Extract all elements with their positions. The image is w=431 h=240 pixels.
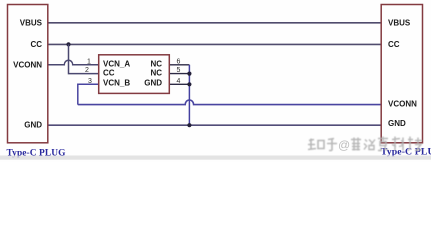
svg-text:NC: NC [150, 59, 162, 68]
svg-text:2: 2 [85, 67, 89, 74]
wire GND net (left plug to right plug) [48, 124, 381, 126]
svg-text:VCN_A: VCN_A [103, 59, 130, 68]
node junction pin4/bus [187, 82, 191, 86]
watermark bottom band [0, 156, 431, 160]
svg-text:4: 4 [177, 78, 181, 85]
svg-text:5: 5 [177, 67, 181, 74]
wire vertical bus pins 6-5-4 down to GND [188, 65, 190, 125]
svg-text:3: 3 [88, 78, 92, 85]
svg-text:VBUS: VBUS [388, 19, 411, 28]
wire U1 pin 4 stub [169, 83, 189, 85]
svg-text:VCN_B: VCN_B [103, 78, 130, 87]
op-amp U1 body (CC controller IC) [99, 55, 170, 94]
svg-text:VCONN: VCONN [13, 61, 42, 70]
glyph 菲 [351, 138, 361, 151]
svg-text:GND: GND [24, 120, 42, 129]
glyph 科 [392, 137, 403, 151]
svg-text:1: 1 [87, 58, 91, 65]
node junction bus/GND [187, 123, 191, 127]
glyph 技 [408, 137, 422, 151]
connector J2 right Type-C plug box [381, 5, 422, 143]
svg-text:@: @ [338, 138, 350, 152]
glyph 洛 [364, 140, 375, 150]
svg-text:CC: CC [388, 40, 400, 49]
watermark zhihu text 知乎 @菲洛克科技 [308, 137, 422, 151]
svg-text:CC: CC [30, 40, 42, 49]
svg-text:VCONN: VCONN [388, 100, 417, 109]
wire CC net horizontal (left plug to right plug) [48, 43, 381, 45]
wire VCONN left (left plug to U1 pin 1, hop over CC vertical) [48, 60, 99, 65]
node CC junction [66, 42, 70, 46]
node junction pin5/bus [187, 72, 191, 76]
glyph 知 [308, 139, 324, 150]
connector J1 left Type-C plug box [8, 5, 48, 143]
svg-text:NC: NC [150, 68, 162, 77]
svg-text:VBUS: VBUS [20, 19, 43, 28]
svg-text:GND: GND [388, 119, 406, 128]
wire U1 pin 6 stub [169, 64, 189, 66]
svg-text:GND: GND [144, 78, 162, 87]
wire CC vertical drop to U1 pin 2 [69, 44, 99, 73]
svg-text:CC: CC [103, 68, 115, 77]
watermark blur filter [0, 0, 1, 1]
wire U1 pin 5 stub [169, 73, 189, 75]
svg-text:6: 6 [177, 58, 181, 65]
wire U1 pin 3 stub and drop to VCONN bottom [78, 84, 99, 104]
wire VBUS net (left plug to right plug) [48, 22, 381, 24]
glyph 乎 [327, 139, 337, 151]
glyph 克 [378, 137, 388, 151]
wire VCONN bottom net (to right plug VCONN, hop over GND bus vertical) [78, 100, 381, 105]
